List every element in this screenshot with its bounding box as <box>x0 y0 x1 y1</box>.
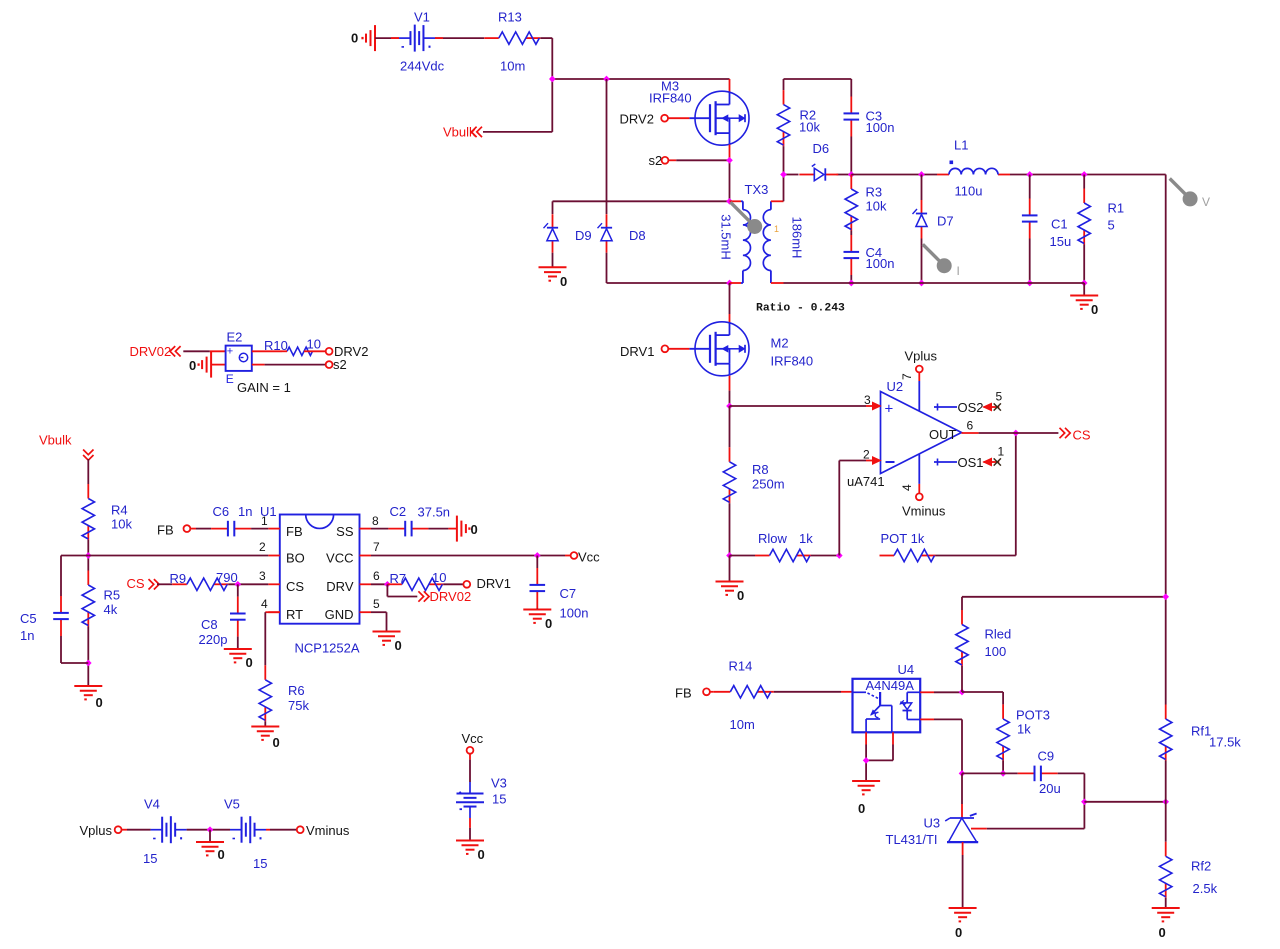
svg-text:1k: 1k <box>799 531 813 546</box>
svg-text:U2: U2 <box>887 379 904 394</box>
svg-text:1k: 1k <box>1017 722 1031 737</box>
svg-text:5: 5 <box>1108 218 1115 233</box>
svg-text:10m: 10m <box>730 717 755 732</box>
svg-text:Vcc: Vcc <box>462 731 484 746</box>
svg-text:Vplus: Vplus <box>905 349 938 364</box>
svg-text:V4: V4 <box>144 797 160 812</box>
svg-text:s2: s2 <box>333 357 347 372</box>
svg-text:DRV1: DRV1 <box>477 576 511 591</box>
svg-text:TX3: TX3 <box>745 182 769 197</box>
svg-text:uA741: uA741 <box>847 474 885 489</box>
svg-text:D9: D9 <box>575 228 592 243</box>
svg-text:4: 4 <box>900 484 914 491</box>
svg-text:NCP1252A: NCP1252A <box>295 641 360 656</box>
svg-text:2.5k: 2.5k <box>1193 881 1218 896</box>
svg-text:Ratio - 0.243: Ratio - 0.243 <box>756 303 845 315</box>
svg-text:1: 1 <box>261 514 268 528</box>
svg-text:GND: GND <box>325 607 354 622</box>
svg-text:Vminus: Vminus <box>306 823 350 838</box>
svg-text:s2: s2 <box>649 153 663 168</box>
svg-text:R5: R5 <box>104 588 121 603</box>
svg-text:U3: U3 <box>924 816 941 831</box>
svg-text:POT3: POT3 <box>1016 708 1050 723</box>
svg-text:L1: L1 <box>954 138 968 153</box>
svg-text:D8: D8 <box>629 228 646 243</box>
svg-text:V3: V3 <box>491 776 507 791</box>
svg-text:2: 2 <box>863 448 870 462</box>
svg-text:0: 0 <box>471 522 478 537</box>
svg-text:R13: R13 <box>498 10 522 25</box>
svg-text:0: 0 <box>189 358 196 373</box>
svg-text:DRV02: DRV02 <box>430 589 472 604</box>
svg-text:DRV: DRV <box>326 579 354 594</box>
svg-text:0: 0 <box>478 847 485 862</box>
svg-text:20u: 20u <box>1039 781 1061 796</box>
svg-text:R7: R7 <box>390 571 407 586</box>
svg-text:TL431/TI: TL431/TI <box>886 832 938 847</box>
svg-text:V5: V5 <box>224 797 240 812</box>
svg-text:100n: 100n <box>866 120 895 135</box>
svg-text:8: 8 <box>372 514 379 528</box>
svg-text:10: 10 <box>307 337 321 352</box>
svg-text:DRV2: DRV2 <box>620 112 654 127</box>
svg-text:I: I <box>957 264 960 278</box>
svg-text:10k: 10k <box>799 120 820 135</box>
svg-text:+: + <box>227 346 233 358</box>
svg-text:0: 0 <box>955 925 962 940</box>
svg-text:244Vdc: 244Vdc <box>400 59 445 74</box>
svg-text:CS: CS <box>1073 428 1091 443</box>
svg-text:1n: 1n <box>238 504 252 519</box>
svg-text:10k: 10k <box>111 517 132 532</box>
svg-text:1: 1 <box>998 445 1005 459</box>
svg-text:100: 100 <box>985 644 1007 659</box>
svg-text:Vcc: Vcc <box>578 550 600 565</box>
svg-text:37.5n: 37.5n <box>418 505 451 520</box>
svg-text:R3: R3 <box>866 185 883 200</box>
svg-text:0: 0 <box>858 801 865 816</box>
svg-text:Vplus: Vplus <box>80 823 113 838</box>
svg-text:75k: 75k <box>288 698 309 713</box>
svg-text:GAIN = 1: GAIN = 1 <box>237 380 291 395</box>
svg-text:M2: M2 <box>771 336 789 351</box>
svg-text:4k: 4k <box>104 602 118 617</box>
svg-text:DRV1: DRV1 <box>620 344 654 359</box>
svg-text:R8: R8 <box>752 462 769 477</box>
svg-text:0: 0 <box>545 616 552 631</box>
svg-text:5: 5 <box>996 390 1003 404</box>
svg-text:D7: D7 <box>937 214 954 229</box>
svg-text:E: E <box>226 372 234 386</box>
svg-text:15: 15 <box>143 851 157 866</box>
svg-text:R10: R10 <box>264 338 288 353</box>
svg-text:FB: FB <box>675 686 692 701</box>
svg-text:C6: C6 <box>213 504 230 519</box>
svg-text:RT: RT <box>286 607 303 622</box>
svg-text:0: 0 <box>96 695 103 710</box>
svg-text:220p: 220p <box>199 632 228 647</box>
svg-text:C2: C2 <box>390 504 407 519</box>
svg-text:V: V <box>1202 195 1210 209</box>
svg-text:C8: C8 <box>201 617 218 632</box>
svg-text:0: 0 <box>273 735 280 750</box>
svg-text:Rf2: Rf2 <box>1191 859 1211 874</box>
svg-text:C5: C5 <box>20 611 37 626</box>
svg-text:6: 6 <box>967 419 974 433</box>
svg-text:0: 0 <box>246 655 253 670</box>
svg-text:0: 0 <box>218 847 225 862</box>
svg-text:OS2: OS2 <box>958 400 984 415</box>
svg-text:IRF840: IRF840 <box>771 354 814 369</box>
svg-text:2: 2 <box>259 540 266 554</box>
svg-text:C7: C7 <box>560 586 577 601</box>
svg-text:POT 1k: POT 1k <box>881 531 925 546</box>
svg-text:Rlow: Rlow <box>758 531 788 546</box>
svg-text:1: 1 <box>774 224 779 234</box>
svg-text:Vbulk: Vbulk <box>39 433 72 448</box>
svg-text:15: 15 <box>492 792 506 807</box>
svg-text:R9: R9 <box>170 571 187 586</box>
svg-text:E2: E2 <box>227 330 243 345</box>
svg-text:186mH: 186mH <box>789 217 804 259</box>
svg-text:IRF840: IRF840 <box>649 91 692 106</box>
svg-text:15u: 15u <box>1050 234 1072 249</box>
svg-text:3: 3 <box>259 569 266 583</box>
svg-text:0: 0 <box>1159 925 1166 940</box>
svg-text:100n: 100n <box>560 606 589 621</box>
svg-text:790: 790 <box>216 570 238 585</box>
svg-text:VCC: VCC <box>326 551 353 566</box>
svg-text:DRV02: DRV02 <box>130 344 172 359</box>
svg-text:D6: D6 <box>813 141 830 156</box>
svg-text:5: 5 <box>373 597 380 611</box>
svg-text:1n: 1n <box>20 628 34 643</box>
svg-text:0: 0 <box>560 274 567 289</box>
svg-text:10m: 10m <box>500 59 525 74</box>
svg-text:250m: 250m <box>752 477 785 492</box>
svg-text:FB: FB <box>157 523 174 538</box>
svg-text:15: 15 <box>253 856 267 871</box>
svg-text:Rled: Rled <box>985 627 1012 642</box>
svg-text:R14: R14 <box>729 659 753 674</box>
svg-text:C1: C1 <box>1051 217 1068 232</box>
svg-text:OUT: OUT <box>929 427 957 442</box>
svg-text:0: 0 <box>737 588 744 603</box>
svg-text:R4: R4 <box>111 503 128 518</box>
svg-text:10: 10 <box>432 570 446 585</box>
svg-text:4: 4 <box>261 597 268 611</box>
svg-text:31.5mH: 31.5mH <box>719 214 734 260</box>
svg-text:100n: 100n <box>866 256 895 271</box>
svg-text:17.5k: 17.5k <box>1209 735 1241 750</box>
svg-text:U4: U4 <box>898 662 915 677</box>
svg-text:BO: BO <box>286 551 305 566</box>
svg-text:0: 0 <box>395 638 402 653</box>
svg-text:C9: C9 <box>1038 749 1055 764</box>
svg-text:7: 7 <box>373 540 380 554</box>
svg-text:OS1: OS1 <box>958 455 984 470</box>
svg-text:+: + <box>885 401 894 418</box>
svg-text:FB: FB <box>286 524 303 539</box>
svg-text:R6: R6 <box>288 683 305 698</box>
svg-text:0: 0 <box>351 31 358 46</box>
svg-text:3: 3 <box>864 393 871 407</box>
svg-text:6: 6 <box>373 569 380 583</box>
svg-text:110u: 110u <box>955 184 983 199</box>
svg-text:A4N49A: A4N49A <box>866 678 915 693</box>
svg-text:SS: SS <box>336 524 354 539</box>
svg-text:Vminus: Vminus <box>902 504 946 519</box>
svg-text:CS: CS <box>127 576 145 591</box>
svg-text:10k: 10k <box>866 199 887 214</box>
svg-text:CS: CS <box>286 579 304 594</box>
svg-text:V1: V1 <box>414 10 430 25</box>
svg-text:R1: R1 <box>1108 201 1125 216</box>
svg-text:0: 0 <box>1091 302 1098 317</box>
